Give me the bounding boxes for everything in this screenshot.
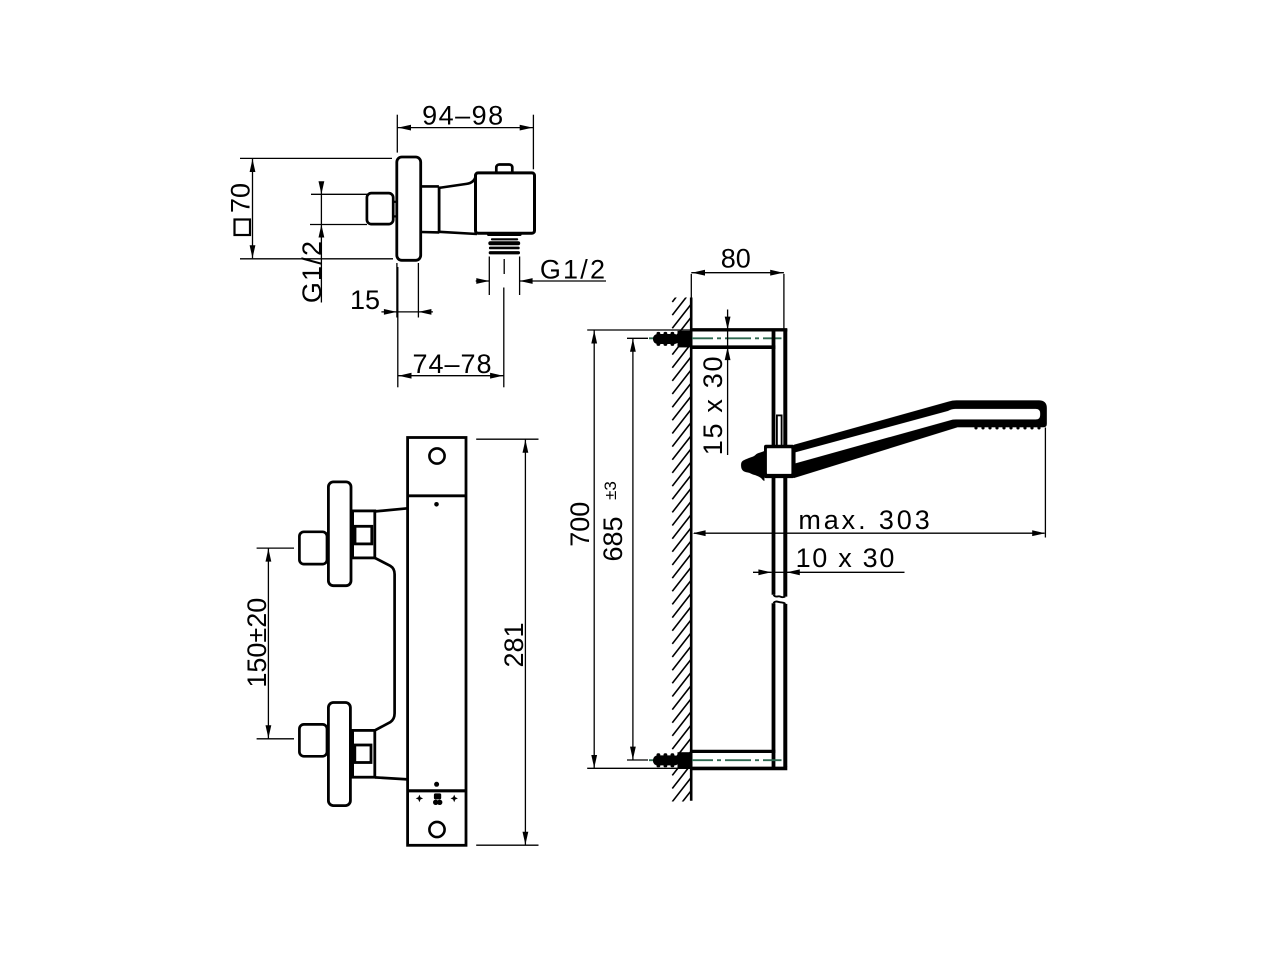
svg-text:max. 303: max. 303 <box>798 505 932 535</box>
dim 70 top extension line <box>240 157 392 159</box>
dim 685 up arrow <box>630 339 636 352</box>
dim 74-78 dimension line <box>398 375 504 377</box>
G1/2 leader up arrow <box>319 225 325 238</box>
wall hatching <box>672 278 690 814</box>
drawing: thermostatic mixer, front view <box>242 438 539 846</box>
dim 10x30 right arrow <box>787 569 800 575</box>
top bracket bottom edge <box>691 345 775 349</box>
lower mounting hole <box>429 822 444 837</box>
svg-text:10 x 30: 10 x 30 <box>796 543 896 573</box>
dim 70 down arrow <box>250 245 256 258</box>
inlet thread lower reference line <box>310 224 367 226</box>
dim 70 dimension line <box>252 159 254 258</box>
bottom bracket top edge <box>691 750 775 753</box>
dim 15x30 leader line <box>727 310 729 456</box>
wall escutcheon plate <box>397 157 421 260</box>
dim 150 up arrow <box>266 549 272 562</box>
outlet dim right arrow <box>520 278 533 284</box>
rail break upper cap (wavy) <box>774 595 786 597</box>
dim 700 dimension line <box>593 330 595 768</box>
dim 10x30 left arrow <box>758 569 771 575</box>
dim 74-78 right extension line <box>503 288 505 388</box>
G1/2 leader line <box>320 182 322 303</box>
outlet dim left arrow <box>476 278 489 284</box>
rail back edge lower part <box>783 604 787 767</box>
svg-text:700: 700 <box>565 502 595 547</box>
bottom bracket centre line (green dash-dot) <box>649 759 782 761</box>
dim 74-78 left extension line <box>397 267 399 387</box>
body top profile line <box>375 508 408 511</box>
dim 700 up arrow <box>591 331 597 344</box>
dim max 303 dimension line <box>694 532 1045 534</box>
holder inner white square <box>767 448 792 474</box>
upper index dot <box>434 502 439 507</box>
bottom bracket bottom edge <box>691 767 787 771</box>
square symbol of dim 70 <box>235 220 251 236</box>
dim 15 left extension line <box>396 263 398 318</box>
threaded outlet stack under body <box>487 234 522 255</box>
outlet dim right tail line <box>520 280 606 282</box>
upper inlet knob <box>299 532 327 564</box>
dim 70 bottom extension line <box>240 258 393 260</box>
bottom wall anchor with screw <box>653 752 692 769</box>
dim 10x30 left arrow tail <box>753 571 771 573</box>
knob stem bottom line <box>393 215 397 217</box>
upper divider line of bar <box>408 494 466 497</box>
dim 94-98 dimension line <box>397 127 533 129</box>
dim 150 dimension line <box>267 548 269 738</box>
slider rod on rail <box>777 415 782 446</box>
valve neck bottom line <box>421 231 440 234</box>
dim 15x30 up arrow <box>725 347 731 360</box>
dim 94-98 right arrow <box>520 125 533 131</box>
dim 94-98 left arrow <box>398 125 411 131</box>
dim max 303 right extension line <box>1044 428 1046 538</box>
upper inlet block <box>353 511 375 558</box>
dim max 303 right arrow <box>1032 530 1045 536</box>
dim 685 top tick line <box>627 337 648 339</box>
svg-text:685: 685 <box>598 516 628 561</box>
dim 15 dimension line <box>381 311 433 313</box>
svg-text:150±20: 150±20 <box>242 598 272 688</box>
spray face dots <box>974 426 1040 429</box>
dim 74-78 right arrow <box>490 373 503 379</box>
dim 15 right extension line <box>417 263 419 318</box>
dim 74-78 left arrow <box>399 373 412 379</box>
lower index dot <box>434 782 439 787</box>
lower escutcheon (front view) <box>328 703 350 806</box>
dim 94-98 right extension line <box>532 115 534 170</box>
mixer vertical body bar <box>408 438 466 846</box>
dim 281 down arrow <box>523 832 529 845</box>
upper mounting hole <box>429 448 444 463</box>
rail front edge lower part <box>772 603 776 767</box>
top bracket centre line (green dash-dot) <box>649 337 782 339</box>
dim 15x30 down arrow <box>725 317 731 330</box>
valve neck top line <box>421 185 439 188</box>
dim 281 up arrow <box>523 440 529 453</box>
svg-text:74–78: 74–78 <box>412 349 492 379</box>
dim 700 top tick line <box>587 329 691 331</box>
dim 80 right extension line <box>783 274 785 329</box>
dim 685 dimension line <box>632 339 634 760</box>
dim 80 dimension line <box>691 272 784 274</box>
svg-text:15 x 30: 15 x 30 <box>698 355 728 455</box>
dim 150 bottom tick line <box>257 738 294 740</box>
outlet dim left arrow tail <box>476 280 490 282</box>
dim 10x30 line across rail <box>771 571 786 573</box>
body bottom profile line <box>375 777 408 779</box>
svg-text:281: 281 <box>499 622 529 667</box>
dim 281 dimension line <box>524 440 526 845</box>
hand shower inner white <box>796 409 1041 464</box>
outlet dim right extension line <box>519 257 521 296</box>
cap on top of valve body <box>496 165 512 177</box>
dim 700 down arrow <box>591 755 597 768</box>
hand shower outline (filled) <box>794 400 1047 478</box>
G1/2 leader down arrow <box>319 181 325 194</box>
dim 15 right arrow <box>418 309 431 315</box>
dim max 303 left arrow <box>693 530 706 536</box>
drawing: shower slide rail, side view <box>565 243 1047 815</box>
upper escutcheon (front view) <box>328 482 351 586</box>
holder body (black) <box>764 445 795 478</box>
inlet connector knob (end view) <box>367 193 393 224</box>
dim 70 up arrow <box>250 159 256 172</box>
outlet centre line (dashed) <box>503 259 505 274</box>
knob stem top line <box>393 201 397 203</box>
valve main square body <box>476 173 535 233</box>
dim 15 left arrow <box>384 309 397 315</box>
svg-text:15: 15 <box>350 285 380 315</box>
rail break lower cap (wavy) <box>774 601 786 603</box>
inlet thread upper reference line <box>311 193 367 195</box>
dim 281 bottom tick line <box>476 844 538 846</box>
rail back edge upper part <box>783 329 787 597</box>
svg-text:±3: ±3 <box>601 481 620 500</box>
dim 80 left extension line <box>690 274 692 298</box>
upper inlet inner square <box>355 526 372 544</box>
dim 685 down arrow <box>630 747 636 760</box>
valve neck right step line <box>438 186 441 232</box>
lower inlet knob <box>299 724 327 756</box>
top bracket top edge <box>691 328 787 331</box>
dim 150 top tick line <box>257 547 294 549</box>
lower inlet inner square <box>355 745 371 763</box>
valve taper bottom edge <box>439 232 477 234</box>
outlet dim left extension line <box>488 257 490 296</box>
wall surface line <box>690 298 693 801</box>
svg-text:G1/2: G1/2 <box>540 255 607 285</box>
dim 80 left arrow <box>692 270 705 276</box>
svg-text:G1/2: G1/2 <box>297 240 327 303</box>
svg-text:70: 70 <box>226 183 256 213</box>
top wall anchor with screw <box>653 331 692 348</box>
lower divider line of bar <box>408 789 467 792</box>
dim 685 bottom tick line <box>627 759 648 761</box>
rail front edge upper part <box>772 331 776 595</box>
dim 10x30 right tail line <box>787 571 905 573</box>
svg-text:94–98: 94–98 <box>422 101 505 131</box>
dim 80 right arrow <box>770 270 783 276</box>
body side S-profile line <box>375 558 395 730</box>
drawing: shower outlet elbow, side view <box>226 101 608 388</box>
valve taper top edge <box>439 175 476 188</box>
dim 281 top tick line <box>476 438 538 440</box>
holder clamp lever (end view) <box>741 451 764 481</box>
dim 150 down arrow <box>266 725 272 738</box>
dim 94-98 left extension line <box>396 115 398 153</box>
lower inlet block <box>353 730 375 777</box>
dim 700 bottom tick line <box>587 767 691 769</box>
svg-text:80: 80 <box>721 243 751 273</box>
temperature scale marks <box>416 793 458 805</box>
